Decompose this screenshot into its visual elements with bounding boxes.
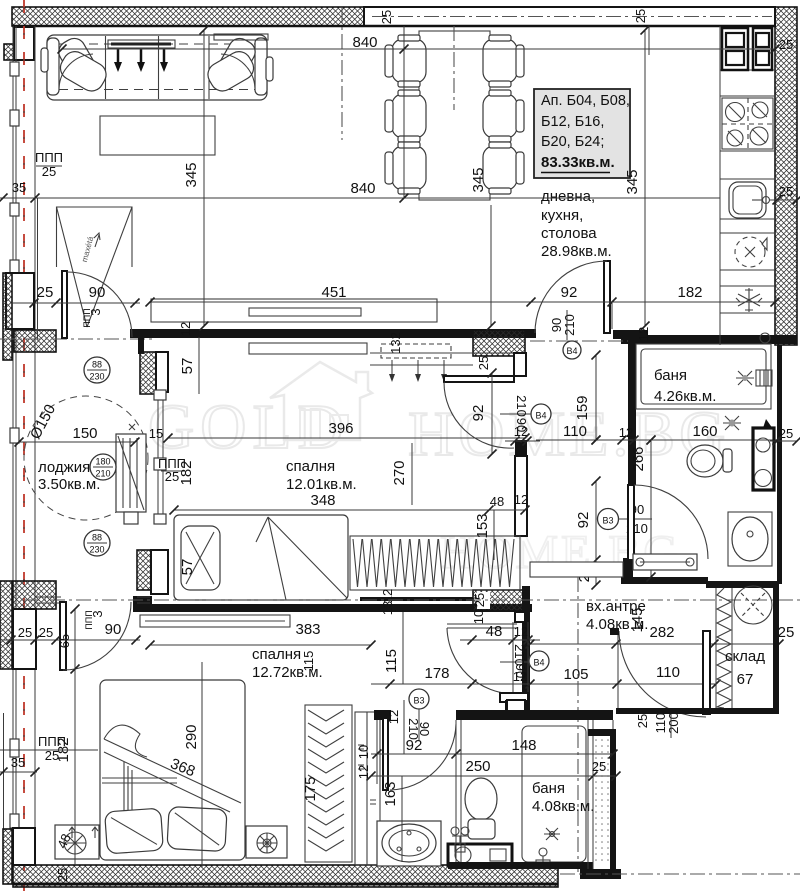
svg-text:12: 12 xyxy=(356,765,371,779)
toilet bathroom1 xyxy=(687,445,723,477)
svg-text:12: 12 xyxy=(513,669,527,684)
svg-text:В3: В3 xyxy=(602,516,613,526)
wall bathroom2 bottom xyxy=(448,862,593,869)
svg-text:57: 57 xyxy=(179,559,196,576)
svg-text:25: 25 xyxy=(779,426,793,441)
svg-text:153: 153 xyxy=(474,513,491,538)
towel rail bathroom1 xyxy=(633,554,697,570)
wall sklad right xyxy=(773,587,779,714)
svg-text:12: 12 xyxy=(178,322,193,336)
shaft bump xyxy=(507,700,525,711)
wall bathroom1 bottom-left corner xyxy=(623,558,633,577)
svg-text:115: 115 xyxy=(383,649,400,673)
svg-text:92: 92 xyxy=(406,737,423,754)
kitchen tall unit B xyxy=(753,28,772,70)
door bedroom1 pier xyxy=(514,353,526,376)
door bathroom2 swing arc xyxy=(390,724,456,790)
svg-text:ППП: ППП xyxy=(35,150,63,165)
arrows wardrobe xyxy=(391,360,393,376)
kitchen sink xyxy=(729,182,766,218)
svg-text:25: 25 xyxy=(18,625,32,640)
svg-text:баня: баня xyxy=(654,367,687,384)
vent symbol bathroom2 xyxy=(544,828,560,840)
svg-text:Ø150: Ø150 xyxy=(27,402,59,442)
sink bathroom2 xyxy=(377,821,441,866)
svg-text:12: 12 xyxy=(619,425,633,440)
shower cabin bathroom2 xyxy=(522,726,586,862)
wall bottom-left hatch strip xyxy=(3,829,12,884)
svg-text:250: 250 xyxy=(465,758,490,775)
wall corridor bar xyxy=(522,586,530,716)
fan symbol sklad xyxy=(734,586,772,624)
bed1 outline xyxy=(174,515,348,600)
dim 25 on hatch block xyxy=(477,592,490,609)
wall block left B hatch xyxy=(13,581,56,609)
dim line 182 bedroom2 xyxy=(0,749,98,751)
svg-text:115: 115 xyxy=(301,651,316,672)
wall bathroom1 bottom xyxy=(621,577,708,584)
wall piece right of hall door xyxy=(613,330,648,339)
wall jamb below bedroom1 door xyxy=(515,440,527,456)
wall stub top-left xyxy=(14,27,34,60)
svg-text:дневна,: дневна, xyxy=(541,188,595,205)
wall bedroom1 left hatch xyxy=(140,352,156,394)
svg-text:25: 25 xyxy=(379,10,394,24)
wall bedroom1 bottom upper face xyxy=(360,597,473,601)
loggia dashed circle xyxy=(24,396,148,520)
balcony railing double line left xyxy=(12,26,14,828)
svg-text:10: 10 xyxy=(471,610,486,624)
door bedroom2 leaf xyxy=(60,602,66,670)
svg-text:110: 110 xyxy=(563,423,587,440)
svg-text:10: 10 xyxy=(356,745,371,759)
fridge snowflake xyxy=(736,288,762,312)
door bedroom1 swing arc xyxy=(444,382,514,448)
door loggia leaf xyxy=(62,271,67,338)
svg-text:210: 210 xyxy=(514,395,529,417)
svg-text:83.33кв.м.: 83.33кв.м. xyxy=(541,154,615,171)
vent symbol bathroom1 lower xyxy=(723,416,741,430)
svg-text:200: 200 xyxy=(666,712,681,734)
axis dash-dot loggia top xyxy=(0,338,152,340)
wall bathroom1 right bar xyxy=(777,345,782,584)
wall bedroom1 left top corner xyxy=(138,329,144,354)
sofa corner xyxy=(47,35,267,100)
svg-text:В4: В4 xyxy=(533,658,544,668)
dining chairs left xyxy=(392,39,426,83)
wall stub top-left hatch xyxy=(4,44,14,60)
svg-text:282: 282 xyxy=(649,624,674,641)
svg-text:25: 25 xyxy=(476,356,491,370)
svg-text:спалня: спалня xyxy=(252,646,301,663)
svg-text:383: 383 xyxy=(295,621,320,638)
wall hatch block mid (bedroom1 top-right) xyxy=(473,330,525,356)
svg-text:12: 12 xyxy=(386,710,401,724)
svg-text:88: 88 xyxy=(92,533,102,543)
svg-text:210: 210 xyxy=(562,314,577,336)
svg-text:25: 25 xyxy=(635,714,650,728)
arrows small above nightstand xyxy=(69,827,98,838)
wall hatch block bedroom1 bottom-right xyxy=(473,590,525,611)
console shelf along top wall xyxy=(108,40,175,48)
axis dash-dot in top band xyxy=(372,16,772,18)
svg-text:35: 35 xyxy=(12,180,26,195)
door corridor jamb upper xyxy=(515,612,525,622)
svg-text:25: 25 xyxy=(592,759,606,774)
door living-hall leaf xyxy=(604,261,610,333)
marker circle 180/210 xyxy=(90,454,116,480)
door corridor swing arc xyxy=(447,628,515,694)
door corridor leaf xyxy=(447,623,517,625)
wall corner bedroom1-bedroom2 xyxy=(133,596,152,612)
wall bottom right dark piece xyxy=(580,869,621,879)
svg-text:лоджия: лоджия xyxy=(38,459,90,476)
svg-text:25: 25 xyxy=(55,868,70,882)
sofa pillows right xyxy=(213,34,259,86)
marker circle B3 bathroom1 xyxy=(598,509,619,530)
boiler dashed xyxy=(735,237,765,267)
wall sklad top xyxy=(706,581,779,588)
red property dashed line xyxy=(23,0,25,891)
wall bedroom1 left pier xyxy=(156,352,168,392)
dim line corridor bottom xyxy=(371,683,716,685)
svg-text:90: 90 xyxy=(105,621,122,638)
svg-text:В3: В3 xyxy=(413,696,424,706)
sofa pillows left xyxy=(55,34,101,86)
svg-text:65: 65 xyxy=(57,634,72,648)
svg-text:столова: столова xyxy=(541,225,597,242)
svg-text:451: 451 xyxy=(321,284,346,301)
svg-text:145: 145 xyxy=(629,607,646,632)
svg-text:148: 148 xyxy=(511,737,536,754)
svg-text:840: 840 xyxy=(350,180,375,197)
svg-text:175: 175 xyxy=(302,776,319,801)
hinge circle at kitchen wall end xyxy=(760,333,770,343)
wall bedroom1 bottom xyxy=(150,604,532,612)
svg-text:840: 840 xyxy=(352,34,377,51)
washing machine bathroom1 xyxy=(753,428,774,490)
dim extension line x404 xyxy=(403,26,405,198)
axis dash-dot bottom right xyxy=(560,873,800,875)
svg-text:230: 230 xyxy=(89,372,104,382)
wall living room bottom xyxy=(130,329,536,338)
balcony inner edge line xyxy=(34,26,36,828)
bed2 pillow right xyxy=(167,807,227,852)
wall entrance left jamb xyxy=(610,628,619,635)
marker circle 88/230 lower xyxy=(84,530,110,556)
svg-text:345: 345 xyxy=(183,162,200,187)
bed2 pillow left xyxy=(105,808,164,854)
svg-text:25: 25 xyxy=(779,37,793,52)
svg-text:кухня,: кухня, xyxy=(541,207,583,224)
window french fan lines xyxy=(57,207,133,327)
shelf lines right of closet xyxy=(370,352,514,354)
svg-text:180: 180 xyxy=(95,457,110,467)
svg-text:25: 25 xyxy=(39,625,53,640)
svg-text:396: 396 xyxy=(328,420,353,437)
wall bathroom2 niche top xyxy=(374,710,391,720)
door bathroom2 leaf xyxy=(383,718,388,790)
svg-text:maxétá: maxétá xyxy=(80,235,96,263)
radiator loggia xyxy=(116,434,146,512)
wall below jamb xyxy=(515,456,527,536)
nightstand left with fan xyxy=(55,825,99,859)
door entrance swing arc xyxy=(619,631,706,717)
svg-text:25: 25 xyxy=(633,9,648,23)
door loggia swing arc xyxy=(67,272,132,337)
wall bedroom2 top thin xyxy=(36,596,61,598)
svg-text:159: 159 xyxy=(574,395,591,420)
hinge arrow bathroom1 xyxy=(763,419,773,429)
svg-text:ППП: ППП xyxy=(38,734,66,749)
sofa arrows xyxy=(117,48,120,64)
axis dash-dot hall door xyxy=(530,340,628,342)
axis dash-dot horizontal mid xyxy=(24,599,800,601)
svg-text:3.50кв.м.: 3.50кв.м. xyxy=(38,476,100,493)
svg-text:345: 345 xyxy=(624,169,641,194)
svg-text:150: 150 xyxy=(72,425,97,442)
wardrobe bedroom1 xyxy=(350,536,520,590)
line second balcony edge xyxy=(37,198,39,339)
axis dash-dot vertical antre xyxy=(577,577,579,872)
shaft right of bathroom2 xyxy=(587,720,589,869)
svg-text:15: 15 xyxy=(149,426,163,441)
window french frame xyxy=(57,207,133,267)
wall jamb corridor lower xyxy=(500,693,528,702)
wardrobe bedroom2 chevron xyxy=(305,705,352,862)
line antre right xyxy=(617,635,619,714)
bed1 pillow xyxy=(181,526,220,590)
vent symbol bathroom1 upper xyxy=(736,371,754,385)
wall niche left line xyxy=(376,720,378,784)
svg-text:Б12, Б16,: Б12, Б16, xyxy=(541,114,604,130)
svg-text:345: 345 xyxy=(470,167,487,192)
bed2 blanket xyxy=(104,739,241,812)
svg-text:Ап. Б04, Б08,: Ап. Б04, Б08, xyxy=(541,93,630,109)
svg-text:182: 182 xyxy=(677,284,702,301)
wall right hatched xyxy=(775,7,797,345)
svg-text:В4: В4 xyxy=(566,346,577,356)
door bathroom1 swing arc xyxy=(634,485,708,559)
svg-text:270: 270 xyxy=(391,460,408,485)
watermark GOLD HOME.BG xyxy=(148,362,729,579)
svg-text:3: 3 xyxy=(90,610,105,617)
kitchen tall unit A xyxy=(722,28,748,70)
closet above bedroom1 top wall xyxy=(151,299,437,322)
wall strip far left B xyxy=(0,581,12,669)
svg-text:182: 182 xyxy=(178,460,195,485)
svg-text:28.98кв.м.: 28.98кв.м. xyxy=(541,243,612,260)
marker circle 88/230 upper xyxy=(84,357,110,383)
svg-text:178: 178 xyxy=(424,665,449,682)
svg-text:25: 25 xyxy=(778,624,795,641)
marker circle B4 bedroom1 door xyxy=(531,404,551,424)
svg-text:13: 13 xyxy=(380,601,395,615)
wall bottom-left corner pier xyxy=(13,828,35,865)
svg-text:склад: склад xyxy=(725,648,765,665)
door corridor extension lines xyxy=(512,622,514,693)
svg-text:290: 290 xyxy=(183,724,200,749)
wall antre right vertical xyxy=(610,736,616,869)
bed1 blanket xyxy=(256,517,347,600)
wall bottom hatched band xyxy=(13,865,558,887)
svg-text:25: 25 xyxy=(37,284,54,301)
svg-text:160: 160 xyxy=(692,423,717,440)
svg-text:92: 92 xyxy=(561,284,578,301)
svg-text:35: 35 xyxy=(11,755,25,770)
svg-text:348: 348 xyxy=(310,492,335,509)
svg-text:57: 57 xyxy=(179,358,196,375)
dim line wall y329 xyxy=(150,301,775,303)
svg-text:90: 90 xyxy=(417,722,432,736)
svg-text:12.01кв.м.: 12.01кв.м. xyxy=(286,476,357,493)
sliding wardrobe dashed xyxy=(381,344,451,358)
wall corner corridor-bath2 xyxy=(505,700,528,716)
tap symbol bathroom2 xyxy=(452,836,468,845)
wall antre bottom corner xyxy=(588,729,616,736)
svg-text:48: 48 xyxy=(490,494,504,509)
svg-text:90: 90 xyxy=(89,284,106,301)
svg-text:266: 266 xyxy=(630,446,647,471)
bed2 outline xyxy=(100,680,245,860)
axis dash-dot vertical left of table xyxy=(341,8,343,140)
svg-text:110: 110 xyxy=(656,664,680,681)
svg-text:В4: В4 xyxy=(535,411,546,421)
wall bathroom1 top xyxy=(621,335,797,344)
svg-text:спалня: спалня xyxy=(286,458,335,475)
kitchen counter dividers xyxy=(720,69,775,71)
svg-text:92: 92 xyxy=(575,512,592,529)
door bathroom1 leaf xyxy=(628,485,634,560)
door living-hall swing arc xyxy=(535,261,607,333)
svg-text:48: 48 xyxy=(486,623,503,640)
balcony glazing joints xyxy=(10,62,19,76)
svg-text:230: 230 xyxy=(89,545,104,555)
coffee table xyxy=(100,116,215,155)
wall block left A lower hatch xyxy=(14,330,56,352)
svg-text:4.26кв.м.: 4.26кв.м. xyxy=(654,388,716,405)
marker circle B4 corridor xyxy=(529,651,549,671)
wall bathroom1 left bar xyxy=(628,338,636,485)
wall bedroom1 left bottom pier xyxy=(151,550,168,594)
svg-text:12: 12 xyxy=(636,327,651,341)
door bedroom1 leaf xyxy=(444,376,514,382)
svg-text:132: 132 xyxy=(388,332,403,354)
svg-text:3: 3 xyxy=(88,308,103,315)
wall bathroom2 top xyxy=(456,710,613,720)
marker circle B4 hall top xyxy=(563,341,581,359)
stove 4 plates xyxy=(722,98,773,149)
dining table xyxy=(419,31,490,200)
wall strip far left A xyxy=(3,273,12,360)
sink bathroom1 xyxy=(728,512,772,566)
wall bathroom2 left lines xyxy=(455,720,457,862)
svg-text:12: 12 xyxy=(514,492,528,507)
svg-text:67: 67 xyxy=(737,671,754,688)
wall bedroom1 left bottom hatch xyxy=(137,550,151,590)
wall bottom-left edge line xyxy=(3,713,5,829)
wall top band right open part xyxy=(364,7,775,26)
wall sklad bottom xyxy=(616,708,779,714)
svg-text:баня: баня xyxy=(532,780,565,797)
svg-text:Б20, Б24;: Б20, Б24; xyxy=(541,134,604,150)
shelf below bedroom1 top wall xyxy=(249,343,367,354)
wall block left A upper pier xyxy=(6,273,34,329)
drain symbol bathroom2 xyxy=(539,848,547,856)
dining chairs right xyxy=(483,39,517,83)
toilet bathroom2 xyxy=(465,778,497,820)
label box apartment xyxy=(534,89,630,178)
radiator bathroom1 xyxy=(756,370,772,386)
window bedroom1-loggia xyxy=(157,392,159,522)
washing machine bathroom2 xyxy=(448,844,512,866)
svg-text:210: 210 xyxy=(512,644,527,666)
wall corridor-antre band xyxy=(530,562,623,577)
shelf top bedroom2 xyxy=(140,615,290,627)
door entrance leaf xyxy=(703,631,710,714)
wall top band bottom edge xyxy=(12,25,775,28)
svg-text:4.08кв.м.: 4.08кв.м. xyxy=(532,798,594,815)
bathtub bathroom1 xyxy=(636,344,771,409)
wall sklad insulation zigzag xyxy=(717,588,731,708)
door bedroom2 swing arc xyxy=(63,602,131,670)
svg-text:105: 105 xyxy=(563,666,588,683)
wall top hatched band xyxy=(12,7,364,26)
wall block left B pier xyxy=(13,609,36,669)
svg-text:163: 163 xyxy=(382,781,399,806)
svg-text:92: 92 xyxy=(470,405,487,422)
svg-text:88: 88 xyxy=(92,360,102,370)
axis dash-dot vertical in table xyxy=(453,26,455,110)
marker circle B3 corridor xyxy=(409,689,429,709)
nightstand right with flower xyxy=(246,826,287,858)
wardrobe bedroom2 tall unit xyxy=(355,712,380,865)
kitchen counter edge xyxy=(719,26,721,345)
